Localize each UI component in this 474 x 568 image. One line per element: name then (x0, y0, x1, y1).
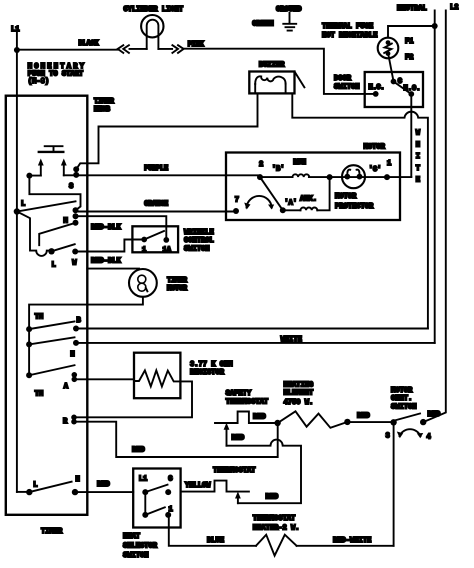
node W terminal (72, 249, 78, 255)
svg-text:RED: RED (253, 414, 266, 422)
node push left (26, 173, 32, 179)
wire under lamp (130, 48, 173, 50)
node motor cent switch 3 (390, 419, 396, 425)
svg-text:RESISTOR: RESISTOR (190, 369, 225, 377)
svg-text:TIMER: TIMER (167, 277, 188, 285)
node motor terminal 1 (384, 174, 390, 180)
node door switch C (391, 79, 397, 85)
svg-text:L: L (21, 201, 25, 209)
wire RED-BLK W to wrinkle 1 (75, 240, 144, 252)
node A terminals (72, 372, 78, 378)
svg-text:GREEN: GREEN (252, 21, 273, 29)
buzzer box (249, 72, 294, 94)
wire neutral to thermal fuse (388, 26, 435, 38)
svg-text:M: M (64, 218, 68, 226)
svg-text:RED-BLK: RED-BLK (91, 224, 122, 232)
wire BLACK from L1 to disconnect (17, 49, 118, 51)
svg-text:L: L (52, 262, 56, 270)
svg-text:E: E (416, 177, 420, 185)
svg-text:CENT.: CENT. (391, 395, 412, 403)
wire RED-WHITE to terminal 3 (297, 545, 394, 547)
timer motor (129, 269, 157, 297)
svg-text:PINK: PINK (188, 41, 205, 49)
svg-text:BLACK: BLACK (79, 40, 100, 48)
aux winding coil (301, 207, 318, 210)
wire RED R row to heating element node (74, 422, 278, 457)
svg-text:TIMER: TIMER (94, 98, 115, 106)
svg-text:WHITE: WHITE (281, 336, 302, 344)
node door switch N.O. (408, 91, 414, 97)
motor start blade 2 to A (260, 177, 283, 210)
wire safety sensor with hop to operating thermostat (227, 440, 302, 504)
svg-text:RED: RED (97, 481, 110, 489)
node timer L terminal (14, 208, 20, 214)
motor centrifugal arc arrow (247, 196, 272, 208)
svg-text:NEUTRAL: NEUTRAL (397, 5, 427, 13)
heat selector switch box (133, 469, 180, 528)
svg-text:I: I (416, 153, 420, 161)
node N terminal (73, 340, 79, 346)
timer low L blade (52, 244, 75, 251)
resistor box (134, 353, 180, 399)
wire ORANGE from M to motor terminal 7 (76, 211, 237, 213)
svg-text:ORANGE: ORANGE (144, 201, 168, 209)
svg-text:2: 2 (259, 161, 263, 169)
node heat selector lower left (142, 512, 148, 518)
svg-text:PROTECTOR: PROTECTOR (335, 203, 374, 211)
svg-text:1A: 1A (163, 247, 172, 255)
connector chevrons left (118, 45, 129, 53)
wire N row to neutral rail (76, 342, 435, 344)
svg-text:H: H (76, 476, 80, 484)
svg-text:RED: RED (428, 411, 441, 419)
wire L2 vertical rail (423, 11, 446, 423)
thermal fuse F1 F2 (378, 38, 399, 59)
svg-text:SWITCH: SWITCH (334, 84, 360, 92)
svg-text:MOTOR: MOTOR (335, 193, 357, 201)
heating element 4750W zigzag (278, 411, 348, 428)
wire push right to S (64, 174, 73, 176)
node motor cent switch 4 (420, 419, 426, 425)
wire PINK to door switch N.C. (184, 49, 376, 94)
motor run winding wire (260, 176, 411, 178)
wire timer motor top lead (87, 268, 139, 270)
wire terminal 3 down to red-white (393, 422, 395, 546)
svg-text:RED-WHITE: RED-WHITE (333, 537, 371, 545)
wire WHITE row B to motor white rail (76, 328, 428, 330)
svg-text:L1: L1 (11, 26, 20, 34)
node heat selector 1 (165, 512, 171, 518)
svg-text:RED: RED (132, 447, 145, 455)
node run/protector junction (327, 174, 333, 180)
buzzer clapper (295, 72, 305, 88)
wire RED-BLK M to wrinkle 1A (76, 216, 167, 240)
svg-text:S: S (69, 183, 74, 191)
svg-text:L2: L2 (450, 4, 459, 12)
svg-text:L: L (33, 482, 37, 490)
svg-text:THERMOSTAT: THERMOSTAT (226, 399, 269, 407)
svg-text:N: N (70, 351, 74, 359)
svg-text:BUZZER: BUZZER (259, 62, 285, 70)
svg-text:THERMOSTAT: THERMOSTAT (253, 515, 296, 523)
door switch box (365, 72, 423, 107)
svg-text:SWITCH: SWITCH (184, 246, 210, 254)
motor aux winding wire (283, 177, 330, 210)
door switch blade (394, 82, 412, 95)
node heat selector L1 (142, 489, 148, 495)
svg-text:WRINKLE: WRINKLE (184, 229, 214, 237)
svg-text:MOTOR: MOTOR (364, 144, 386, 152)
node wrinkle 1 (141, 237, 147, 243)
node motor aux A (280, 207, 286, 213)
wrinkle blade (144, 231, 164, 240)
svg-text:TIMER: TIMER (41, 528, 63, 536)
svg-text:B: B (77, 317, 82, 325)
svg-text:R: R (63, 418, 68, 426)
svg-text:SWITCH: SWITCH (391, 404, 417, 412)
svg-text:T: T (416, 165, 421, 173)
node TM1 (26, 326, 32, 332)
node R terminals (71, 415, 77, 421)
node heating element right (344, 419, 350, 425)
run winding coil (293, 174, 310, 177)
svg-text:W: W (416, 130, 421, 138)
node timer H terminal (72, 489, 78, 495)
svg-text:PURPLE: PURPLE (144, 165, 168, 173)
svg-text:SELECTOR: SELECTOR (123, 543, 158, 551)
svg-text:TM: TM (35, 391, 44, 399)
timer M blade (39, 223, 75, 245)
TM2 blade (29, 337, 74, 344)
wire fuse to door switch common (389, 56, 394, 81)
svg-text:THERMOSTAT: THERMOSTAT (213, 467, 256, 475)
svg-text:KNOB: KNOB (94, 106, 111, 114)
wire timer motor bottom lead to TM chain (29, 297, 143, 376)
svg-text:MOTOR: MOTOR (391, 387, 413, 395)
wire BLUE heat selector 1 to thermostat heater (169, 515, 256, 546)
node heat selector C (165, 489, 171, 495)
wrinkle control switch box (132, 226, 178, 252)
wire L1 to lower contact (144, 492, 146, 515)
node motor terminal 7 (233, 208, 239, 214)
svg-text:SWITCH: SWITCH (123, 552, 149, 560)
svg-text:HEATING: HEATING (284, 382, 314, 390)
svg-text:THERMAL FUSE: THERMAL FUSE (322, 23, 373, 31)
wire L1 stub to timer L contact (17, 491, 29, 493)
safety thermostat arrow (226, 430, 228, 446)
push to start button (45, 146, 63, 152)
TM1 blade (29, 322, 74, 330)
svg-text:RED: RED (357, 413, 370, 421)
motor cent switch arc arrow (400, 429, 421, 436)
node L1/black junction (14, 47, 20, 53)
wire NEUTRAL vertical rail (434, 11, 436, 343)
svg-text:F2: F2 (405, 54, 414, 62)
svg-text:'C': 'C' (369, 166, 382, 174)
svg-text:MOTOR: MOTOR (167, 285, 188, 293)
svg-text:W: W (72, 260, 77, 268)
wire buzzer left lead to timer S (76, 93, 257, 169)
node TM3 (26, 372, 32, 378)
lamp cylinder light (141, 15, 163, 37)
wire L1 vertical rail (16, 33, 18, 492)
svg-text:HEATER-2 W.: HEATER-2 W. (253, 525, 300, 533)
thermostat heater 2W zigzag (256, 535, 297, 556)
svg-text:HEAT: HEAT (123, 533, 141, 541)
node S terminals (73, 166, 79, 172)
svg-text:DOOR: DOOR (334, 75, 352, 83)
heat selector blade upper (145, 485, 167, 492)
svg-text:7: 7 (235, 197, 239, 205)
svg-text:(M-8): (M-8) (28, 78, 49, 86)
svg-text:'A': 'A' (284, 200, 297, 208)
svg-text:RUN: RUN (293, 159, 306, 167)
timer L blade (17, 201, 76, 211)
svg-text:C: C (168, 476, 173, 484)
buzzer coil (255, 84, 285, 94)
timer bottom blade (29, 482, 71, 492)
node door switch N.C. (373, 91, 379, 97)
wire push button left to M chain (29, 176, 80, 211)
svg-text:YELLOW: YELLOW (185, 482, 211, 490)
svg-text:H: H (416, 141, 420, 149)
wire L to low contact with dip (17, 212, 52, 256)
svg-text:RED-BLK: RED-BLK (91, 258, 122, 266)
svg-text:3: 3 (386, 433, 390, 441)
resistor 3.77k zigzag (134, 370, 180, 386)
svg-text:3.77 K OHM: 3.77 K OHM (190, 361, 233, 369)
svg-text:CONTROL: CONTROL (184, 237, 214, 245)
svg-text:A: A (64, 383, 69, 391)
node wrinkle 1A (163, 237, 169, 243)
operating thermostat arrow (237, 498, 239, 504)
motor box (226, 153, 400, 221)
wire resistor to R row (74, 381, 192, 417)
svg-text:RED: RED (266, 494, 279, 502)
node heating element left (274, 420, 280, 426)
svg-text:1: 1 (142, 247, 146, 255)
TM3 blade (29, 365, 74, 375)
safety thermostat (215, 412, 278, 424)
node M terminals (73, 207, 79, 213)
node timer bottom L (26, 489, 32, 495)
svg-text:AUX.: AUX. (300, 196, 317, 204)
motor protector (342, 165, 365, 188)
timer box (6, 96, 88, 515)
wire buzzer right lead to white rail with hop (292, 93, 428, 328)
heat selector blade lower (145, 507, 165, 515)
svg-text:'B': 'B' (272, 166, 285, 174)
svg-text:BLUE: BLUE (207, 537, 224, 545)
svg-text:CYLINDER LIGHT: CYLINDER LIGHT (124, 6, 184, 14)
node timer low L terminal (48, 248, 54, 254)
wire PURPLE from S to motor terminal 2 (76, 174, 260, 176)
svg-text:ELEMENT: ELEMENT (284, 390, 315, 398)
svg-text:L1: L1 (139, 476, 148, 484)
wire YELLOW heat selector C to thermostat (181, 481, 249, 492)
node TM2 (26, 341, 32, 347)
node B terminal (73, 326, 79, 332)
wire RED heating element to motor cent switch (347, 421, 393, 423)
push to start arrows (41, 165, 64, 176)
wire N.O. down to motor terminal 1 (410, 94, 412, 177)
svg-text:N.C.: N.C. (369, 84, 385, 92)
svg-text:TM: TM (35, 314, 44, 322)
connector chevrons right (172, 45, 183, 53)
node neutral junction (432, 23, 438, 29)
svg-text:1: 1 (387, 160, 391, 168)
svg-text:RED: RED (232, 435, 245, 443)
svg-text:NOT RESETABLE: NOT RESETABLE (322, 32, 377, 40)
svg-text:SAFETY: SAFETY (226, 390, 252, 398)
wire A row to resistor (74, 378, 134, 380)
wire RED H to heat selector (75, 491, 133, 493)
svg-text:4: 4 (427, 434, 432, 442)
node motor terminal 2 (257, 174, 263, 180)
motor cent switch blade (395, 414, 421, 421)
svg-text:4750 W.: 4750 W. (284, 399, 314, 407)
svg-text:F1: F1 (405, 38, 414, 46)
svg-text:1: 1 (169, 506, 173, 514)
